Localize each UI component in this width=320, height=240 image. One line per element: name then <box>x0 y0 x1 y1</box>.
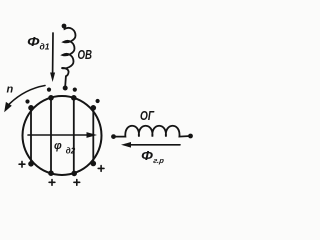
label Phi_d2 <box>54 140 76 155</box>
svg-text:г.р: г.р <box>153 156 165 165</box>
coil OV (excitation winding, vertical) <box>62 24 76 91</box>
cross bottom-right <box>74 180 80 186</box>
flux arrow Phi_g.r (leftward) <box>121 142 180 148</box>
svg-text:ОВ: ОВ <box>78 47 93 62</box>
label Phi_g.r <box>141 148 165 165</box>
svg-text:д1: д1 <box>40 42 50 52</box>
junction dots on circle <box>28 95 96 176</box>
coil OG (horizontal) <box>111 126 193 139</box>
cross right <box>98 166 104 172</box>
armature circle <box>23 96 102 175</box>
svg-text:n: n <box>7 84 14 96</box>
conductor chord 4 <box>92 107 94 164</box>
flux arrow Phi_d2 (horizontal, rightward) <box>28 132 97 138</box>
cross bottom-left <box>49 180 55 186</box>
svg-text:ОГ: ОГ <box>140 109 155 123</box>
conductor chord 1 <box>30 107 32 164</box>
conductor chord 3 <box>73 98 75 174</box>
conductor chord 2 <box>50 98 52 174</box>
label Phi_d1 <box>27 35 50 52</box>
svg-text:д2: д2 <box>66 147 76 156</box>
svg-text:Φ: Φ <box>27 35 40 49</box>
svg-text:Φ: Φ <box>141 148 153 163</box>
cross left <box>19 161 25 167</box>
current direction dots (top, outside circle) <box>25 88 99 104</box>
svg-text:φ: φ <box>54 140 62 152</box>
rotation arrow n <box>4 86 45 113</box>
flux arrow Phi_d1 (downward) <box>50 33 55 82</box>
current direction crosses (bottom, outside circle) <box>19 161 104 185</box>
